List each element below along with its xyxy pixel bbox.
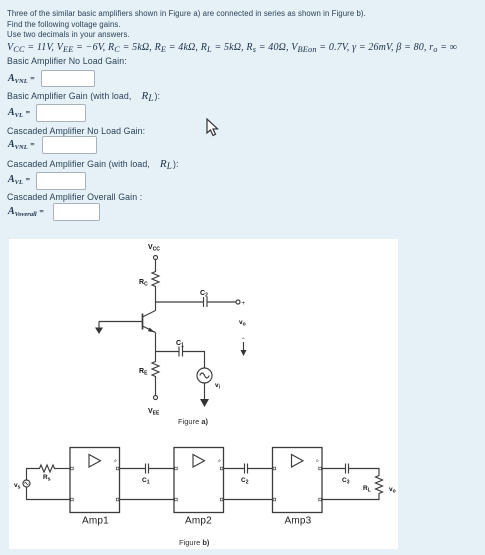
answer box 4 [36, 172, 86, 190]
label VCC [148, 244, 160, 253]
minus sign [242, 336, 246, 342]
wire C1 to source vi [183, 352, 205, 369]
amplifier block Amp3 [273, 448, 323, 513]
wire Amp1 bottom to Amp2 bottom [120, 499, 175, 501]
svg-text:RC: RC [139, 279, 148, 288]
answer label 5 [8, 206, 44, 217]
caption figure b [179, 538, 210, 547]
label Cb3 [342, 477, 350, 486]
prompt 3 [7, 126, 145, 136]
wire Cb2 to Amp3 [248, 468, 273, 470]
wire Amp2 to Cb2 [224, 468, 245, 470]
svg-text:C2: C2 [241, 477, 249, 486]
white figure panel [9, 239, 398, 550]
wire emitter node to C1 [156, 351, 179, 353]
label RL [363, 485, 371, 494]
ground (base) [95, 322, 103, 335]
svg-text:C3: C3 [342, 477, 350, 486]
label vs [14, 482, 21, 491]
wire Amp3 to Cb3 [322, 468, 345, 470]
capacitor Cb1 [146, 464, 149, 474]
svg-text:+: + [242, 301, 246, 307]
wire VCC to RC [155, 260, 157, 270]
output terminal [236, 300, 240, 304]
label Amp3 [285, 516, 312, 527]
wire Amp1 to Cb1 [120, 468, 146, 470]
output reference arrow [241, 342, 247, 356]
svg-text:o: o [114, 458, 117, 463]
wire Rs to Amp1 [56, 468, 70, 470]
question text line 2 [7, 20, 121, 29]
label C1 [176, 340, 184, 349]
label RE [139, 368, 148, 377]
svg-text:vs: vs [14, 482, 21, 491]
transistor Q1 [143, 302, 156, 333]
svg-text:vi: vi [215, 382, 221, 391]
source vi [197, 368, 212, 383]
wire RE to VEE terminal [155, 379, 157, 396]
answer box 3 [42, 136, 97, 154]
svg-text:Rs: Rs [43, 474, 51, 483]
label Amp1 [82, 516, 109, 527]
answer label 4 [8, 174, 30, 185]
plus sign [242, 301, 246, 307]
resistor RE [152, 360, 159, 379]
svg-text:Figure b): Figure b) [179, 538, 210, 547]
svg-text:RL: RL [363, 485, 371, 494]
prompt 2 [7, 90, 160, 102]
svg-text:RE: RE [139, 368, 148, 377]
power terminal VCC [154, 256, 158, 260]
resistor RC [152, 269, 159, 290]
label RC [139, 279, 148, 288]
wire node to RE [155, 352, 157, 361]
svg-text:Figure a): Figure a) [178, 417, 209, 426]
power terminal VEE [154, 396, 158, 400]
resistor RL [376, 474, 383, 496]
prompt 4 [7, 158, 179, 170]
capacitor C2 [204, 297, 208, 307]
label Cb1 [142, 477, 150, 486]
answer box 1 [41, 70, 95, 87]
resistor Rs [38, 465, 56, 472]
wire base to ground [99, 321, 143, 323]
amplifier block Amp2 [174, 448, 224, 513]
ground (source) [200, 399, 209, 407]
prompt 1 [7, 56, 127, 66]
caption figure a [178, 417, 209, 426]
source vs [23, 480, 30, 487]
svg-text:o: o [218, 458, 221, 463]
svg-text:vo: vo [389, 486, 396, 495]
wire RC to collector node [155, 290, 157, 302]
svg-text:VCC: VCC [148, 244, 160, 253]
svg-text:−: − [242, 336, 246, 342]
svg-text:C1: C1 [142, 477, 150, 486]
answer label 1 [8, 73, 35, 84]
label Rs [43, 474, 51, 483]
label Amp2 [185, 516, 212, 527]
svg-text:vo: vo [239, 319, 246, 328]
capacitor Cb3 [346, 464, 349, 474]
svg-text:o: o [316, 458, 319, 463]
wire collector node to C2 [156, 301, 204, 303]
label vo (figure b) [389, 486, 396, 495]
label VEE [148, 408, 160, 417]
parameter formula line [7, 42, 457, 53]
answer box 5 [53, 203, 100, 221]
label Cb2 [241, 477, 249, 486]
question text line 1 [7, 9, 366, 18]
wire Cb1 to Amp2 [149, 468, 175, 470]
svg-text:Amp1: Amp1 [82, 516, 109, 527]
prompt 5 [7, 192, 142, 202]
capacitor C1 [179, 347, 183, 357]
wire source to ground [204, 383, 206, 400]
svg-text:Amp2: Amp2 [185, 516, 212, 527]
wire vs bottom to Amp1 [27, 487, 71, 500]
wire Amp2 bottom to Amp3 bottom [224, 499, 273, 501]
question text line 3 [7, 30, 130, 39]
wire Amp3 bottom to RL bottom [322, 496, 379, 500]
wire Cb3 to RL [349, 469, 380, 475]
capacitor Cb2 [245, 464, 248, 474]
answer label 2 [8, 107, 30, 118]
label C2 [200, 290, 208, 299]
amplifier block Amp1 [70, 448, 120, 513]
wire vs to Rs [27, 469, 39, 481]
answer label 3 [8, 139, 35, 150]
answer box 2 [36, 104, 86, 122]
label vo [239, 319, 246, 328]
wire C2 to output terminal [207, 301, 236, 303]
label vi [215, 382, 221, 391]
svg-text:VEE: VEE [148, 408, 160, 417]
mouse cursor [205, 118, 221, 138]
wire emitter down to node [155, 333, 157, 352]
svg-text:Amp3: Amp3 [285, 516, 312, 527]
